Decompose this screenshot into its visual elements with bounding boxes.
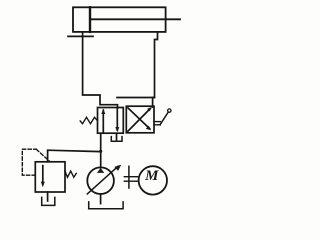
relief valve outlet pipe <box>47 192 49 201</box>
valve arrow B-to-T (down) <box>116 108 118 130</box>
wire: cylinder right port down <box>117 32 158 98</box>
valve spring (left) <box>80 117 97 123</box>
pump suction pipe <box>100 194 102 204</box>
tank under pump <box>89 202 123 209</box>
wire: branch to relief valve <box>48 150 101 162</box>
relief valve V1 square <box>35 162 65 192</box>
pump P1 circle <box>87 167 114 194</box>
tank under valve T port <box>111 137 122 142</box>
cylinder piston <box>89 7 91 32</box>
cylinder rod <box>90 18 180 20</box>
wire: valve P port down to pump <box>100 133 102 167</box>
node junction dot <box>99 150 102 153</box>
wire: valve T port stub <box>116 133 118 139</box>
coupling shaft pump-motor <box>128 166 130 188</box>
valve lever (right) <box>154 121 160 123</box>
wire: cylinder left port down <box>83 32 118 108</box>
cylinder barrel <box>73 7 166 32</box>
cylinder mounting line <box>68 35 93 37</box>
motor label M <box>143 169 161 184</box>
relief valve spring (right) <box>65 171 77 178</box>
pilot dashed diagonal <box>36 149 50 161</box>
pump outlet triangle <box>97 168 104 173</box>
wire: right pipe to valve port B <box>153 98 155 108</box>
valve left square (4/2 valve U2) <box>98 108 124 134</box>
valve X arrow 2 (down-right) <box>128 108 150 129</box>
relief valve pilot dashed line <box>22 149 36 175</box>
relief valve internal arrow (down) <box>42 166 44 185</box>
pump variable arrow <box>87 166 118 194</box>
motor M1 circle <box>139 166 167 194</box>
valve arrow P-to-A (up) <box>102 110 104 133</box>
valve right square <box>126 106 154 133</box>
tank under relief valve <box>42 197 55 205</box>
valve X arrow 1 (up-right) <box>128 109 150 132</box>
